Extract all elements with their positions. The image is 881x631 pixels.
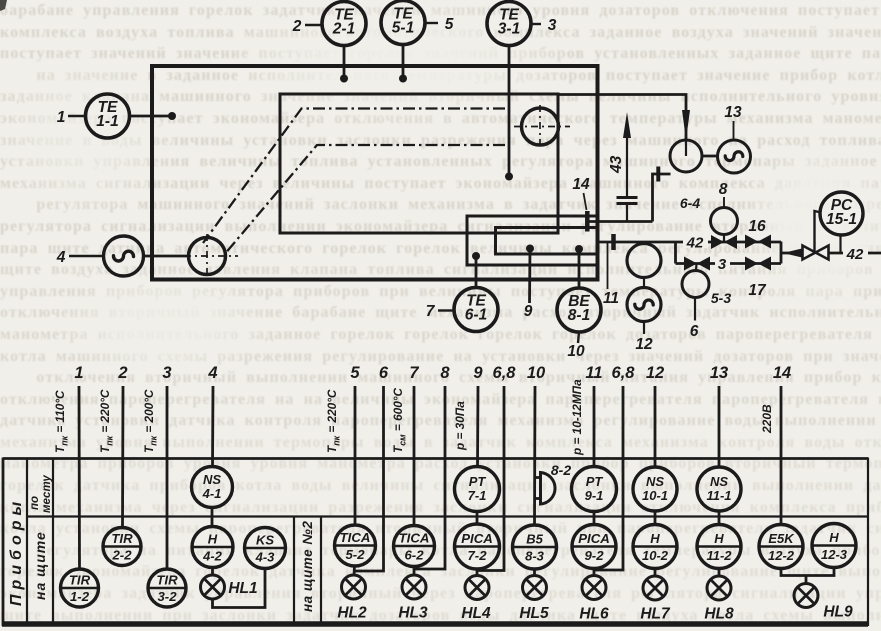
instrument TIR 2-2 xyxy=(103,528,141,566)
valve 16 xyxy=(745,235,771,249)
svg-text:на щите: на щите xyxy=(32,531,48,600)
wire line10 xyxy=(533,386,536,525)
damper crosshair A xyxy=(189,238,226,275)
instrument TICA 5-2 xyxy=(335,525,376,566)
svg-text:HL6: HL6 xyxy=(579,606,609,623)
wire line9 xyxy=(476,386,479,467)
svg-text:14: 14 xyxy=(572,176,590,193)
sensor TE 2-1 xyxy=(322,2,366,46)
wire TE5-1 stem xyxy=(402,45,405,79)
actuator circle 12 xyxy=(627,288,661,322)
wire line3 xyxy=(166,386,169,569)
svg-text:Приборы: Приборы xyxy=(8,497,25,606)
wire line5 xyxy=(354,386,357,525)
svg-text:TIR: TIR xyxy=(111,531,133,546)
svg-text:HL1: HL1 xyxy=(228,580,257,597)
svg-text:1-1: 1-1 xyxy=(96,113,118,130)
steam main wire y=242 xyxy=(600,241,782,244)
sensor TE 1-1 xyxy=(86,94,130,138)
instrument PICA 7-2 xyxy=(455,524,500,569)
actuator circle 13 xyxy=(718,140,751,173)
inline tag 42 right xyxy=(843,247,868,260)
wire H11-2 to HL8 xyxy=(718,569,721,577)
instrument NS 11-1 xyxy=(697,467,741,511)
svg-text:1: 1 xyxy=(74,364,83,382)
wire line14 xyxy=(780,386,783,525)
positioner circle 5-3 xyxy=(695,264,698,271)
label 5 xyxy=(425,22,438,24)
svg-text:E5K: E5K xyxy=(768,531,795,546)
svg-text:4: 4 xyxy=(207,364,217,382)
svg-text:6: 6 xyxy=(379,364,389,382)
wire PICA9-2 to HL6 xyxy=(593,569,596,576)
wire line2 xyxy=(121,386,124,528)
wire from inner rect to item 6-4 xyxy=(558,95,686,141)
svg-text:NS: NS xyxy=(203,472,221,487)
svg-text:43: 43 xyxy=(608,155,625,174)
wire line1 xyxy=(78,386,81,569)
svg-text:6-4: 6-4 xyxy=(680,195,700,211)
table top border xyxy=(3,457,868,460)
impulse line 43 with arrow xyxy=(626,128,628,196)
instrument E5K 12-2 xyxy=(759,525,803,569)
node dot tap 9 xyxy=(526,245,534,253)
instrument TIR 1-2 xyxy=(61,569,99,607)
wire line7 xyxy=(413,386,416,526)
instrument PT 9-1 xyxy=(572,467,617,512)
valve 17 xyxy=(745,257,771,271)
label 11 leader xyxy=(607,243,609,289)
wire TE3-1 stem xyxy=(508,46,511,177)
svg-text:2-1: 2-1 xyxy=(332,21,355,38)
flow arrow left xyxy=(783,249,802,258)
wire PT9-1 to PICA9-2 xyxy=(593,512,596,525)
svg-text:7-1: 7-1 xyxy=(468,488,487,503)
instrument NS 10-1 xyxy=(633,467,677,511)
sensor TE 6-1 xyxy=(454,288,498,332)
svg-text:6,8: 6,8 xyxy=(612,364,636,382)
wire line4 xyxy=(211,386,214,467)
dash-dot level line lower xyxy=(227,145,506,252)
svg-text:12: 12 xyxy=(646,364,664,382)
svg-text:H: H xyxy=(650,531,660,546)
svg-text:Tпк = 220°C: Tпк = 220°C xyxy=(98,389,115,453)
svg-text:8: 8 xyxy=(440,364,450,382)
svg-text:HL3: HL3 xyxy=(398,605,428,622)
node dot TE2-1 xyxy=(340,75,348,83)
wire NS4-1 to H4-2 xyxy=(211,508,214,527)
svg-text:14: 14 xyxy=(773,364,791,382)
wire PC to line xyxy=(839,235,841,253)
instrument TIR 3-2 xyxy=(148,569,186,607)
bypass wire y=263 xyxy=(676,262,782,265)
svg-text:16: 16 xyxy=(748,218,766,235)
svg-text:8: 8 xyxy=(719,181,728,198)
table left border xyxy=(2,458,5,627)
wire PC to valve42b xyxy=(815,211,822,253)
svg-text:6-1: 6-1 xyxy=(465,307,487,324)
label 10 xyxy=(578,332,579,343)
wire NS10-1 to H10-2 xyxy=(654,511,657,525)
svg-text:5-2: 5-2 xyxy=(345,547,365,562)
svg-text:7: 7 xyxy=(426,303,436,320)
outlet wire y=253 xyxy=(781,252,881,255)
wire H10-2 to HL7 xyxy=(654,569,657,577)
actuator circle 4 xyxy=(104,236,144,276)
svg-text:8-3: 8-3 xyxy=(525,549,545,564)
economizer inner channel xyxy=(496,228,597,255)
wire 6-4 to 13 xyxy=(702,155,718,158)
svg-text:10-2: 10-2 xyxy=(642,548,669,563)
instrument PICA 9-2 xyxy=(572,525,616,569)
node dot TE3-1 xyxy=(505,173,513,181)
svg-text:2: 2 xyxy=(292,18,302,35)
sensor BE 8-1 xyxy=(557,288,601,332)
svg-text:11-2: 11-2 xyxy=(706,548,732,563)
wire TICA6-2 to HL3 xyxy=(413,567,416,576)
primary element bar 11 xyxy=(611,234,616,250)
wire tap 9 xyxy=(528,249,531,304)
wire circle4 to damper xyxy=(144,255,189,258)
svg-text:15-1: 15-1 xyxy=(826,211,857,228)
sensor TE 5-1 xyxy=(381,1,425,45)
svg-text:p = 30Па: p = 30Па xyxy=(453,401,467,451)
panel No2 divider right xyxy=(320,517,322,625)
instrument NS 4-1 xyxy=(192,467,233,508)
svg-text:7-2: 7-2 xyxy=(467,548,487,563)
svg-text:10-1: 10-1 xyxy=(642,488,668,503)
row divider xyxy=(27,515,868,517)
capacitor separator plates xyxy=(617,196,638,199)
svg-text:9: 9 xyxy=(524,303,533,320)
svg-text:7: 7 xyxy=(409,364,419,382)
svg-text:по: по xyxy=(29,496,41,510)
svg-text:KS: KS xyxy=(256,533,274,548)
svg-text:Tсм = 600°C: Tсм = 600°C xyxy=(391,388,408,453)
lamp HL7 xyxy=(643,576,667,600)
lamp HL9 xyxy=(794,584,818,608)
lamp HL2 xyxy=(342,575,366,599)
svg-text:p = 10-12МПа: p = 10-12МПа xyxy=(570,379,584,456)
wire HL1 to KS4-3 xyxy=(213,569,266,608)
scan corner artifact xyxy=(0,0,7,11)
column divider 2 xyxy=(52,459,54,625)
svg-text:11-1: 11-1 xyxy=(706,488,731,503)
bypass drop wire xyxy=(674,242,677,264)
sensor TE 3-1 xyxy=(487,2,531,46)
svg-text:H: H xyxy=(829,530,839,545)
svg-text:NS: NS xyxy=(646,474,664,489)
wire B5 8-3 to HL5 xyxy=(533,569,536,576)
column divider 1 xyxy=(26,459,28,625)
svg-text:10: 10 xyxy=(567,343,585,360)
instrument PT 7-1 xyxy=(455,467,500,512)
svg-text:3: 3 xyxy=(548,17,557,34)
svg-text:на щите №2: на щите №2 xyxy=(300,521,315,612)
svg-text:HL4: HL4 xyxy=(461,605,491,622)
diaphragm 8-2 xyxy=(541,473,556,505)
svg-text:2-2: 2-2 xyxy=(111,548,132,563)
lamp HL1 xyxy=(201,575,225,599)
instrument KS 4-3 xyxy=(245,528,286,569)
dash-dot level line upper xyxy=(203,109,505,244)
svg-text:2: 2 xyxy=(117,364,127,382)
svg-text:1: 1 xyxy=(57,109,66,126)
svg-text:11: 11 xyxy=(603,290,619,307)
svg-text:4-2: 4-2 xyxy=(202,549,223,564)
wire line6 with elbow xyxy=(355,386,384,571)
panel No2 divider left xyxy=(293,517,295,625)
gas duct (inner rectangle) xyxy=(280,94,558,233)
wire PICA7-2 to HL4 xyxy=(476,569,479,576)
svg-text:9-1: 9-1 xyxy=(585,488,604,503)
instrument H 11-2 xyxy=(697,525,741,569)
valve 42b xyxy=(803,246,829,260)
svg-text:11: 11 xyxy=(585,364,602,382)
svg-text:220В: 220В xyxy=(760,404,774,434)
svg-text:HL5: HL5 xyxy=(519,605,549,622)
svg-text:NS: NS xyxy=(710,474,728,489)
svg-text:4-1: 4-1 xyxy=(202,486,222,501)
svg-text:6: 6 xyxy=(690,323,699,340)
lamp HL5 xyxy=(523,576,547,600)
wire H4-2 to HL1 xyxy=(211,568,214,576)
svg-text:H: H xyxy=(714,531,724,546)
wire line6,8a with elbow xyxy=(478,386,504,571)
svg-text:8-1: 8-1 xyxy=(568,307,590,324)
svg-text:6-2: 6-2 xyxy=(404,548,424,563)
wire line12 xyxy=(654,386,657,467)
svg-text:HL9: HL9 xyxy=(823,604,853,621)
transmitter circle (item 12 upper) xyxy=(627,244,661,278)
boiler outline (big rectangle) xyxy=(152,66,598,280)
svg-text:12-3: 12-3 xyxy=(821,547,848,562)
svg-text:TICA: TICA xyxy=(340,530,371,545)
instrument B5 8-3 xyxy=(513,525,557,569)
svg-text:3: 3 xyxy=(162,364,171,382)
svg-text:3-2: 3-2 xyxy=(157,589,177,604)
svg-text:B5: B5 xyxy=(526,532,543,547)
lamp HL8 xyxy=(707,576,731,600)
svg-text:1-2: 1-2 xyxy=(70,589,90,604)
primary element bar 14 xyxy=(585,211,590,232)
instrument TICA 6-2 xyxy=(394,526,435,567)
wire line11 xyxy=(593,386,596,467)
svg-text:42: 42 xyxy=(686,235,704,252)
svg-text:H: H xyxy=(208,532,218,547)
svg-text:10: 10 xyxy=(527,364,546,382)
wire line8 with elbow xyxy=(415,386,445,569)
wire TICA5-2 to HL2 xyxy=(353,566,356,575)
wire line6,8b with elbow xyxy=(595,386,623,570)
damper crosshair B xyxy=(522,108,559,145)
node dot TE6-1 tap xyxy=(472,252,480,260)
svg-text:Tпк = 200°C: Tпк = 200°C xyxy=(142,389,159,453)
inline tag 42 left xyxy=(683,235,708,248)
svg-text:3: 3 xyxy=(718,256,727,273)
economizer outer channel xyxy=(467,216,596,265)
svg-text:Tпк = 110°C: Tпк = 110°C xyxy=(53,390,70,453)
svg-text:5-3: 5-3 xyxy=(711,290,731,306)
valve 3 with inline tag xyxy=(684,257,710,271)
svg-text:9: 9 xyxy=(473,364,483,382)
regulator 6-4 xyxy=(670,140,702,172)
svg-text:5: 5 xyxy=(350,364,360,382)
valve 42a xyxy=(711,235,737,249)
svg-text:8-2: 8-2 xyxy=(551,462,571,478)
svg-text:Tпк = 220°C: Tпк = 220°C xyxy=(325,389,342,453)
impulse wire y=221 xyxy=(587,220,653,223)
svg-text:PT: PT xyxy=(469,474,487,489)
wire PT7-1 to PICA7-2 xyxy=(476,512,479,525)
svg-text:месту: месту xyxy=(41,475,53,513)
label 3 xyxy=(532,23,542,25)
svg-text:5-1: 5-1 xyxy=(392,20,414,37)
arrowhead down into 6-4 xyxy=(682,110,690,140)
svg-text:HL7: HL7 xyxy=(640,606,671,623)
wire line13 xyxy=(718,386,721,467)
wire E5K and H12-3 to HL9 xyxy=(781,568,834,584)
svg-text:TIR: TIR xyxy=(156,573,178,588)
wire circle8 to valve42a xyxy=(723,235,725,243)
lamp HL3 xyxy=(402,575,426,599)
svg-text:HL2: HL2 xyxy=(337,605,367,622)
instrument H 12-3 xyxy=(812,524,856,568)
wire BE8-1 stem xyxy=(578,249,581,288)
wire up to 6-4 xyxy=(653,174,671,222)
svg-text:PT: PT xyxy=(586,474,604,489)
wire TE2-1 stem xyxy=(343,46,346,79)
controller PC 15-1 xyxy=(820,192,863,235)
table right border xyxy=(867,458,869,627)
svg-text:17: 17 xyxy=(748,282,767,299)
svg-text:HL8: HL8 xyxy=(704,606,734,623)
svg-text:6,8: 6,8 xyxy=(493,364,517,382)
svg-text:13: 13 xyxy=(724,104,742,121)
node dot BE8-1 tap xyxy=(575,245,583,253)
wire TE1-1 to boiler xyxy=(130,115,173,118)
bridge wire x=781 xyxy=(780,242,783,264)
svg-text:42: 42 xyxy=(846,246,864,263)
wire NS11-1 to H11-2 xyxy=(718,511,721,525)
svg-text:TIR: TIR xyxy=(69,573,91,588)
instrument H 10-2 xyxy=(633,525,677,569)
svg-text:TICA: TICA xyxy=(399,531,430,546)
positioner circle 8 xyxy=(711,208,738,235)
svg-text:13: 13 xyxy=(710,364,728,382)
node dot TE5-1 xyxy=(399,75,407,83)
wire TE6-1 stem xyxy=(475,256,478,288)
node dot TE1-1 xyxy=(168,112,176,120)
tick bar on 6-4 wire xyxy=(656,167,660,182)
instrument H 4-2 xyxy=(192,527,233,568)
svg-text:4-3: 4-3 xyxy=(255,550,276,565)
svg-text:9-2: 9-2 xyxy=(584,548,604,563)
table bottom border xyxy=(2,621,868,627)
svg-text:5: 5 xyxy=(445,16,454,33)
svg-text:12: 12 xyxy=(635,336,653,353)
svg-text:PICA: PICA xyxy=(578,531,610,546)
lamp HL4 xyxy=(465,576,489,600)
svg-text:12-2: 12-2 xyxy=(768,548,795,563)
lamp HL6 xyxy=(582,576,606,600)
svg-text:PICA: PICA xyxy=(461,531,493,546)
svg-text:3-1: 3-1 xyxy=(498,21,520,38)
svg-text:4: 4 xyxy=(56,249,66,266)
